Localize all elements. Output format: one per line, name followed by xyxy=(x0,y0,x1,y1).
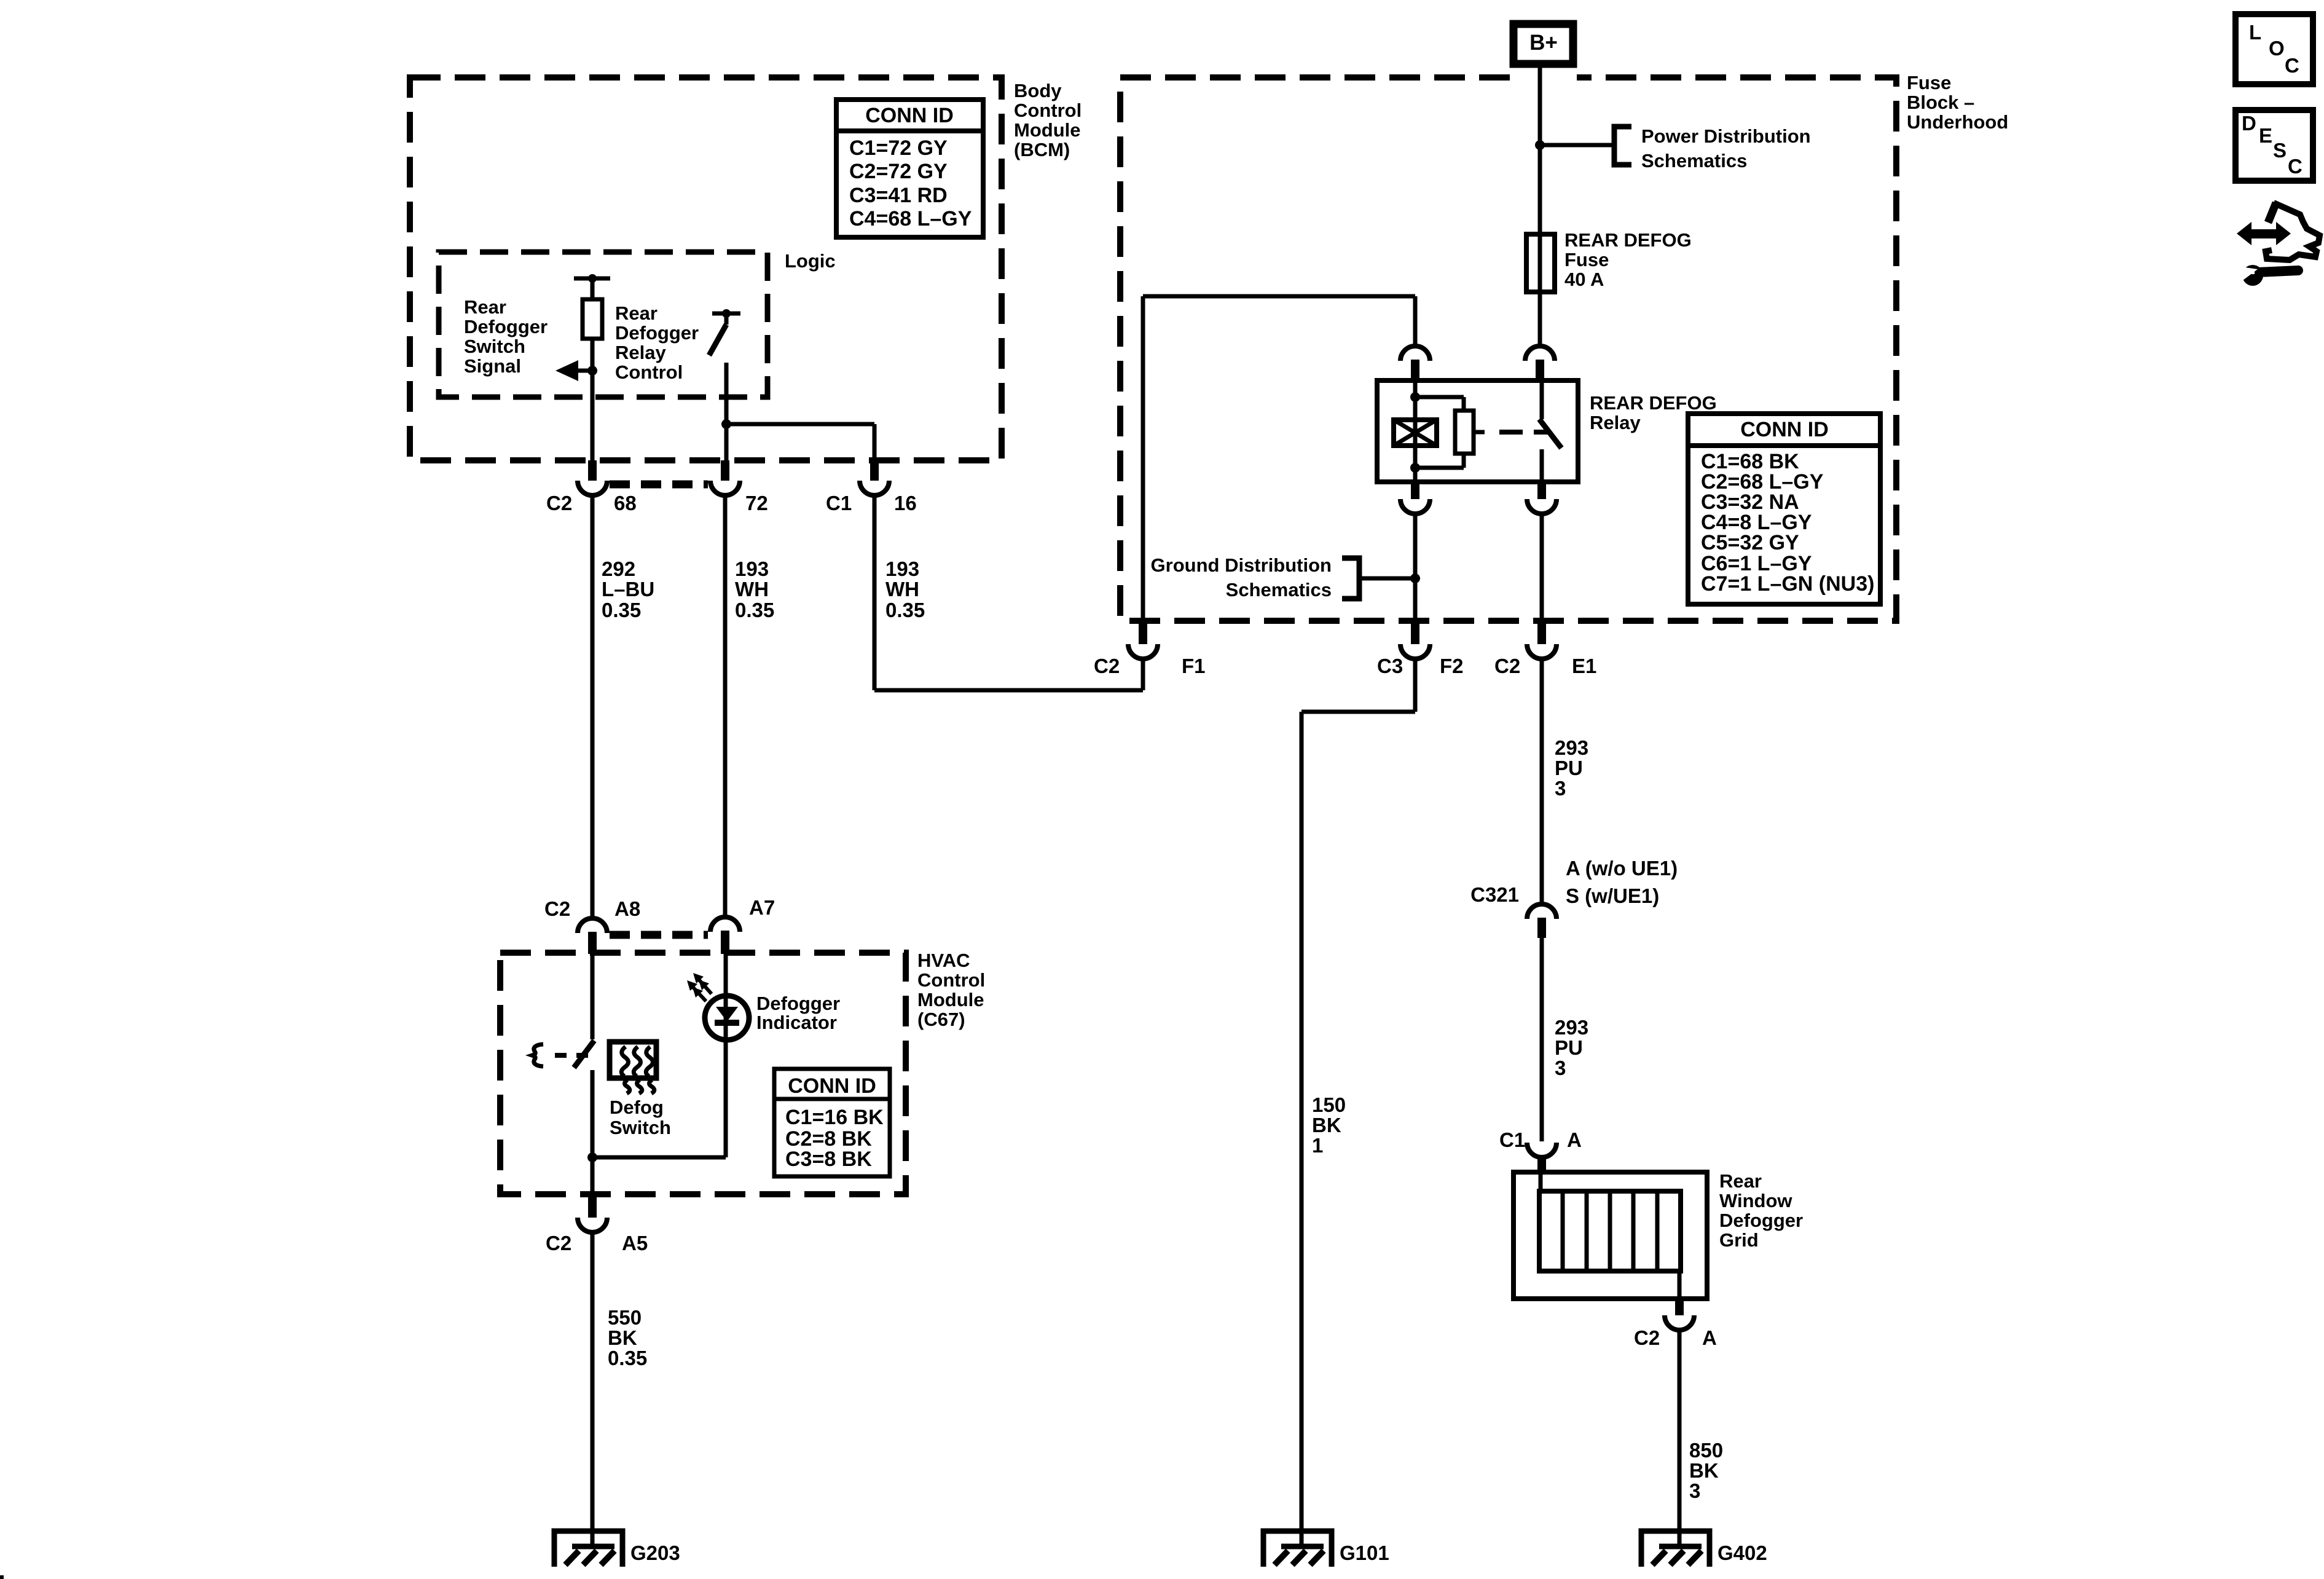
wire to ground distribution node xyxy=(1413,514,1418,621)
svg-text:C: C xyxy=(2285,54,2299,77)
svg-text:Power Distribution: Power Distribution xyxy=(1641,125,1811,147)
relay coil terminal connector xyxy=(1400,346,1430,361)
svg-text:C5=32 GY: C5=32 GY xyxy=(1701,531,1799,554)
ground G402 xyxy=(1641,1528,1710,1567)
svg-text:CONN ID: CONN ID xyxy=(1740,418,1829,441)
BCM CONN ID table xyxy=(836,100,983,237)
svg-text:3: 3 xyxy=(1689,1479,1700,1502)
svg-text:Rear: Rear xyxy=(1719,1170,1762,1192)
svg-text:D: D xyxy=(2242,112,2256,135)
svg-text:16: 16 xyxy=(894,492,917,514)
svg-text:C7=1 L–GN (NU3): C7=1 L–GN (NU3) xyxy=(1701,572,1874,596)
wire 550 BK xyxy=(591,1232,595,1531)
HVAC Control Module dashed box xyxy=(500,953,906,1194)
svg-text:Module: Module xyxy=(1014,119,1081,141)
relay coil xyxy=(1413,380,1418,468)
svg-text:CONN ID: CONN ID xyxy=(865,104,954,127)
svg-text:Defogger: Defogger xyxy=(464,316,548,337)
ground G101 xyxy=(1263,1528,1332,1567)
REAR DEFOG fuse 40A xyxy=(1526,234,1555,292)
svg-text:72: 72 xyxy=(745,492,768,514)
relay coil suppression resistor loop xyxy=(1415,395,1464,400)
wire 193 WH (16) xyxy=(873,495,877,690)
svg-text:C1: C1 xyxy=(826,492,852,514)
svg-text:292: 292 xyxy=(602,557,635,580)
svg-text:550: 550 xyxy=(608,1306,642,1329)
svg-text:3: 3 xyxy=(1555,777,1566,800)
svg-text:Logic: Logic xyxy=(785,250,836,272)
svg-text:CONN ID: CONN ID xyxy=(788,1074,876,1098)
wire 850 BK to G402 xyxy=(1678,1330,1682,1531)
svg-text:F2: F2 xyxy=(1440,655,1464,677)
connector body dashed line xyxy=(610,481,708,489)
connector C2 pin A (grid out) xyxy=(1675,1299,1684,1315)
svg-text:850: 850 xyxy=(1689,1439,1723,1462)
svg-text:Control: Control xyxy=(1014,100,1082,121)
battery feed B+ xyxy=(1513,24,1573,64)
svg-text:193: 193 xyxy=(735,557,769,580)
svg-text:C2: C2 xyxy=(1494,655,1520,677)
svg-text:Block –: Block – xyxy=(1907,92,1974,113)
svg-text:150: 150 xyxy=(1312,1093,1346,1116)
wire from B+ xyxy=(1538,64,1542,346)
svg-text:C4=68 L–GY: C4=68 L–GY xyxy=(849,207,972,230)
node power distribution tap xyxy=(1535,140,1545,150)
node + arrow rear defogger switch signal xyxy=(587,366,597,376)
jump/wrench icon xyxy=(2237,203,2320,286)
svg-text:A (w/o UE1): A (w/o UE1) xyxy=(1566,857,1678,880)
svg-text:B+: B+ xyxy=(1529,31,1558,55)
svg-text:E1: E1 xyxy=(1572,655,1596,677)
svg-text:A: A xyxy=(1567,1128,1582,1151)
bracket ground distribution schematics xyxy=(1359,577,1415,581)
svg-text:E: E xyxy=(2259,124,2272,147)
connector C3 pin F2 (fuse block) xyxy=(1411,621,1419,644)
svg-text:C3=8 BK: C3=8 BK xyxy=(785,1148,872,1171)
svg-text:0.35: 0.35 xyxy=(735,599,774,621)
svg-text:Defogger: Defogger xyxy=(1719,1210,1803,1231)
svg-text:(C67): (C67) xyxy=(917,1009,965,1030)
connector C2 pin F1 (fuse block) xyxy=(1139,621,1147,644)
svg-text:A8: A8 xyxy=(614,897,640,920)
defogger indicator LED xyxy=(724,931,728,1157)
svg-text:Relay: Relay xyxy=(615,342,666,363)
svg-text:193: 193 xyxy=(885,557,919,580)
svg-text:G101: G101 xyxy=(1340,1542,1389,1564)
svg-text:O: O xyxy=(2269,37,2285,60)
connector C1 pin 16 (BCM) xyxy=(870,460,879,481)
bracket power distribution schematics xyxy=(1614,127,1631,165)
relay switch xyxy=(1540,380,1544,419)
node: rear defogger switch signal tick xyxy=(574,277,610,281)
svg-text:A: A xyxy=(1702,1326,1717,1349)
wire 292 L-BU xyxy=(591,495,595,918)
svg-text:C1=72 GY: C1=72 GY xyxy=(849,136,948,160)
svg-text:0.35: 0.35 xyxy=(885,599,925,621)
resistor (switch signal pull-up) xyxy=(583,299,602,339)
relay switch lower connector xyxy=(1537,482,1546,499)
rear window defogger grid xyxy=(1513,1172,1707,1299)
svg-text:C2: C2 xyxy=(1634,1326,1660,1349)
Body Control Module (BCM) dashed box xyxy=(410,77,1002,460)
svg-text:C3: C3 xyxy=(1377,655,1403,677)
svg-text:Schematics: Schematics xyxy=(1641,150,1747,171)
svg-text:0.35: 0.35 xyxy=(608,1347,647,1369)
svg-text:Rear: Rear xyxy=(464,296,506,318)
svg-text:(BCM): (BCM) xyxy=(1014,139,1070,160)
svg-text:Grid: Grid xyxy=(1719,1229,1759,1251)
relay coil lower connector xyxy=(1411,482,1419,499)
svg-text:293: 293 xyxy=(1555,736,1588,759)
svg-text:Defog: Defog xyxy=(610,1097,664,1118)
svg-text:Rear: Rear xyxy=(615,302,658,324)
page corner artifact xyxy=(0,1575,4,1579)
svg-text:Signal: Signal xyxy=(464,355,521,377)
svg-text:WH: WH xyxy=(735,578,769,600)
svg-text:Ground Distribution: Ground Distribution xyxy=(1151,554,1332,576)
switch linkage dashes xyxy=(532,1044,543,1066)
svg-text:BK: BK xyxy=(1312,1114,1341,1136)
svg-text:A7: A7 xyxy=(749,896,775,919)
svg-text:G203: G203 xyxy=(630,1542,680,1564)
svg-text:Schematics: Schematics xyxy=(1226,579,1332,600)
wire 150 BK to G101 xyxy=(1413,659,1418,712)
switch rear defogger relay control xyxy=(712,312,740,316)
connector C2 pin A8 (HVAC) xyxy=(578,918,607,933)
svg-text:C3=41 RD: C3=41 RD xyxy=(849,184,948,207)
svg-text:C2: C2 xyxy=(546,1232,571,1254)
svg-text:REAR DEFOG: REAR DEFOG xyxy=(1590,392,1717,414)
Logic dashed box xyxy=(439,252,767,397)
Fuse Block - Underhood dashed box xyxy=(1120,77,1896,621)
HVAC CONN ID table xyxy=(774,1069,890,1176)
svg-text:Switch: Switch xyxy=(610,1117,671,1138)
svg-text:0.35: 0.35 xyxy=(602,599,641,621)
svg-text:L–BU: L–BU xyxy=(602,578,654,600)
svg-text:1: 1 xyxy=(1312,1134,1323,1157)
svg-text:Body: Body xyxy=(1014,80,1062,101)
svg-text:Module: Module xyxy=(917,989,984,1010)
connector C321 xyxy=(1527,904,1557,919)
svg-text:S: S xyxy=(2273,139,2287,162)
svg-text:A5: A5 xyxy=(622,1232,648,1254)
node junction to C1-16 xyxy=(721,419,731,429)
Fuse Block CONN ID table xyxy=(1688,414,1880,604)
wire xyxy=(591,339,595,460)
svg-text:68: 68 xyxy=(614,492,637,514)
svg-text:293: 293 xyxy=(1555,1016,1588,1039)
LOC icon box xyxy=(2236,14,2313,84)
wire 293 PU to C321 xyxy=(1540,659,1544,904)
connector body dashed line xyxy=(610,931,708,939)
svg-text:REAR DEFOG: REAR DEFOG xyxy=(1564,229,1692,251)
connector pin 72 (BCM) xyxy=(721,460,729,481)
svg-text:C1: C1 xyxy=(1499,1128,1525,1151)
wire LED to switch node xyxy=(592,1156,726,1160)
svg-text:Control: Control xyxy=(615,361,683,383)
svg-text:Control: Control xyxy=(917,969,985,991)
svg-text:C321: C321 xyxy=(1470,883,1519,906)
svg-text:WH: WH xyxy=(885,578,919,600)
relay switch terminal connector xyxy=(1525,346,1555,361)
wire to C1 pin 16 xyxy=(726,422,874,427)
svg-text:L: L xyxy=(2249,21,2261,44)
defog switch xyxy=(591,954,595,1039)
svg-text:C2: C2 xyxy=(1094,655,1120,677)
svg-text:BK: BK xyxy=(608,1326,637,1349)
connector C1 pin A (grid) xyxy=(1527,1143,1557,1157)
svg-text:40 A: 40 A xyxy=(1564,269,1604,290)
feed wire to relay coil (from F1 riser) xyxy=(1141,296,1145,621)
svg-text:S (w/UE1): S (w/UE1) xyxy=(1566,884,1659,907)
connector C2 pin A5 (HVAC) xyxy=(588,1194,597,1218)
svg-text:C2: C2 xyxy=(544,897,570,920)
connector pin A7 (HVAC) xyxy=(710,917,740,932)
relay actuation dashed link xyxy=(1474,430,1485,435)
ground G203 xyxy=(554,1528,622,1567)
svg-text:Underhood: Underhood xyxy=(1907,111,2008,133)
DESC icon box xyxy=(2236,110,2313,181)
svg-text:C2: C2 xyxy=(546,492,572,514)
svg-text:C1=16 BK: C1=16 BK xyxy=(785,1106,884,1129)
connector C2 pin E1 (fuse block) xyxy=(1537,621,1546,644)
svg-text:C2=72 GY: C2=72 GY xyxy=(849,160,948,183)
svg-text:Defogger: Defogger xyxy=(756,993,840,1014)
svg-text:Defogger: Defogger xyxy=(615,322,699,344)
svg-text:PU: PU xyxy=(1555,757,1583,779)
svg-text:PU: PU xyxy=(1555,1036,1583,1059)
svg-text:Indicator: Indicator xyxy=(756,1012,837,1033)
svg-text:Relay: Relay xyxy=(1590,412,1641,433)
svg-text:Fuse: Fuse xyxy=(1564,249,1609,270)
wire 193 WH (72) xyxy=(723,495,728,918)
REAR DEFOG relay box xyxy=(1377,380,1578,482)
svg-text:Fuse: Fuse xyxy=(1907,72,1951,93)
wire xyxy=(591,278,595,299)
svg-text:C: C xyxy=(2288,155,2302,178)
svg-text:3: 3 xyxy=(1555,1057,1566,1079)
svg-text:BK: BK xyxy=(1689,1459,1719,1482)
svg-text:G402: G402 xyxy=(1717,1542,1767,1564)
svg-text:HVAC: HVAC xyxy=(917,950,970,971)
svg-text:Switch: Switch xyxy=(464,336,525,357)
wire 293 PU to grid xyxy=(1540,938,1544,1141)
connector C2 pin 68 (BCM) xyxy=(588,460,597,481)
defog heater icon xyxy=(610,1042,656,1093)
svg-text:Window: Window xyxy=(1719,1190,1792,1211)
svg-text:F1: F1 xyxy=(1182,655,1206,677)
